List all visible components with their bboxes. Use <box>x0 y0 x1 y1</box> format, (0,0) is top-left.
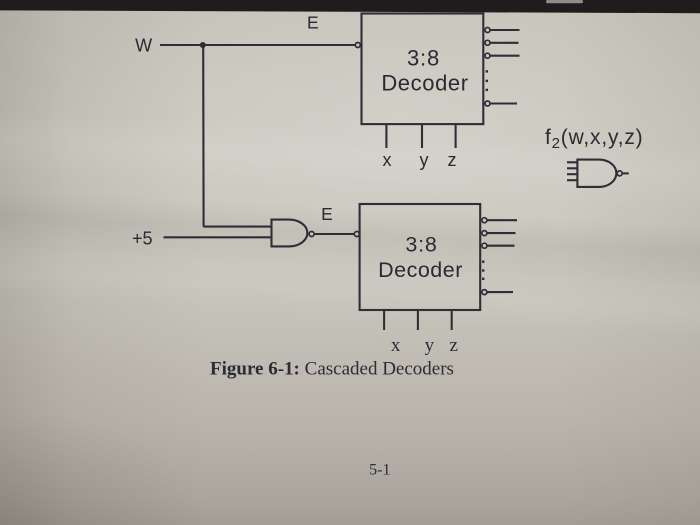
svg-text:+5: +5 <box>132 229 153 249</box>
svg-text:Figure 6-1: Cascaded Decoders: Figure 6-1: Cascaded Decoders <box>210 359 454 380</box>
svg-text:x: x <box>383 150 392 170</box>
svg-text:W: W <box>135 36 152 56</box>
svg-text:Decoder: Decoder <box>378 258 463 282</box>
svg-text:z: z <box>448 150 457 170</box>
svg-text:f2(w,x,y,z): f2(w,x,y,z) <box>545 126 643 152</box>
svg-text:3:8: 3:8 <box>407 46 440 71</box>
svg-text:x: x <box>391 335 401 356</box>
svg-text:5-1: 5-1 <box>369 462 390 479</box>
svg-text:3:8: 3:8 <box>405 233 437 257</box>
svg-text:Decoder: Decoder <box>381 71 468 96</box>
svg-text:E: E <box>321 204 333 224</box>
svg-text:z: z <box>449 335 457 356</box>
svg-text:E: E <box>307 12 319 32</box>
svg-text:y: y <box>420 150 429 170</box>
svg-text:y: y <box>425 335 435 356</box>
